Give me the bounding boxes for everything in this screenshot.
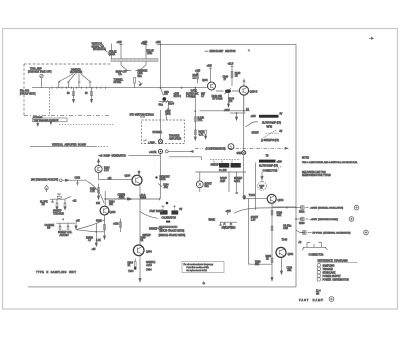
capacitor cluster dashed xyxy=(210,159,240,161)
svg-text:RAMP GENERATOR: RAMP GENERATOR xyxy=(104,155,127,158)
resistor R263 xyxy=(73,88,75,98)
svg-text:SWEEP: SWEEP xyxy=(234,178,243,180)
svg-text:START: START xyxy=(205,183,213,186)
waveform heavy bar xyxy=(259,115,279,118)
resistor col x120 xyxy=(119,219,121,233)
svg-text:+12.5: +12.5 xyxy=(146,265,153,267)
wire mid hline xyxy=(195,171,246,173)
svg-text:CALIBRATOR: CALIBRATOR xyxy=(162,216,177,219)
wire lower bus xyxy=(105,198,160,200)
svg-text:R184: R184 xyxy=(104,168,110,170)
wire pointer xyxy=(105,50,111,56)
svg-text:TRIGGER: TRIGGER xyxy=(169,136,180,138)
ground arrow xyxy=(103,236,105,239)
wire col 229 xyxy=(228,172,230,192)
wire q243 col xyxy=(104,191,106,206)
svg-text:1M: 1M xyxy=(42,204,45,206)
svg-text:DIODE: DIODE xyxy=(114,81,122,84)
svg-text:VERTICAL AMPLIFIER BOARD: VERTICAL AMPLIFIER BOARD xyxy=(52,144,86,147)
svg-text:(+): (+) xyxy=(246,109,249,111)
svg-text:[MULTI–TRACE UNITS]: [MULTI–TRACE UNITS] xyxy=(160,229,185,232)
svg-text:(COMPENSATION): (COMPENSATION) xyxy=(206,147,226,150)
svg-text:SWEEP LEN: SWEEP LEN xyxy=(222,226,236,229)
svg-text:VERTICAL: VERTICAL xyxy=(92,43,104,46)
svg-text:SIGNAL VIA: SIGNAL VIA xyxy=(92,45,105,48)
svg-text:+GATE [NORMAL OSCILLATOR]: +GATE [NORMAL OSCILLATOR] xyxy=(310,207,343,210)
svg-text:WAVE: WAVE xyxy=(209,219,216,222)
section divider vert amp board xyxy=(30,145,97,147)
svg-text:12.4: 12.4 xyxy=(316,291,321,293)
svg-text:TRIGGER: TRIGGER xyxy=(323,269,334,271)
svg-text:Q344: Q344 xyxy=(278,199,285,202)
svg-text:T304: T304 xyxy=(128,270,134,273)
svg-text:LINE: LINE xyxy=(138,73,144,75)
wire diode drop xyxy=(228,93,230,104)
svg-text:50Ω: 50Ω xyxy=(205,185,210,188)
svg-text:SNAP OFF: SNAP OFF xyxy=(116,71,128,74)
resistor R140 xyxy=(231,72,233,78)
wire col 236.7 xyxy=(236,172,238,194)
resistor R265 xyxy=(91,88,93,98)
delay line bar xyxy=(111,59,158,62)
legend row 1 xyxy=(317,264,320,267)
svg-text:– – ERROR AMP SECTION: – – ERROR AMP SECTION xyxy=(205,50,236,53)
svg-text:R144: R144 xyxy=(229,99,235,101)
svg-text:4.7K: 4.7K xyxy=(199,134,204,136)
switch dashed box xyxy=(142,120,185,144)
svg-text:177L: 177L xyxy=(198,120,204,122)
legend row 3 xyxy=(317,271,320,274)
svg-text:Q243: Q243 xyxy=(110,211,117,214)
wire r265a column xyxy=(95,224,97,244)
svg-text:[FROM VERT]: [FROM VERT] xyxy=(20,93,36,96)
resistor R182 xyxy=(98,184,100,196)
wire q243 down xyxy=(104,215,106,236)
node memory gate dot xyxy=(155,176,157,178)
resistor marks xyxy=(134,262,136,267)
svg-text:NORMAL: NORMAL xyxy=(153,131,164,134)
wire divider taps xyxy=(59,74,90,82)
svg-text:FAST RAMP: FAST RAMP xyxy=(299,298,324,302)
connector ring xyxy=(165,150,168,153)
svg-text:INTERFACE: INTERFACE xyxy=(93,48,106,51)
svg-text:C349: C349 xyxy=(140,237,146,239)
svg-text:0V: 0V xyxy=(179,209,182,211)
resistor R118 xyxy=(134,78,136,84)
svg-text:+GATE: +GATE xyxy=(149,151,157,154)
output row 2 xyxy=(296,218,301,220)
svg-text:PULSE: PULSE xyxy=(109,52,117,54)
svg-text:C140: C140 xyxy=(223,77,229,79)
ground arrow xyxy=(90,98,92,103)
wire bottom border xyxy=(28,286,296,288)
svg-text:NOTE:: NOTE: xyxy=(302,158,309,160)
diode D140 dark xyxy=(225,89,231,93)
svg-text:Q154 B: Q154 B xyxy=(250,92,258,94)
svg-text:TRIG. AMP: TRIG. AMP xyxy=(30,68,42,71)
wire schematic top border xyxy=(157,43,297,45)
wire diode drop xyxy=(167,102,169,111)
svg-text:LAMP: LAMP xyxy=(149,142,156,145)
svg-text:TYPE N SAMPLING UNIT: TYPE N SAMPLING UNIT xyxy=(36,270,77,274)
label compensation divider xyxy=(195,147,203,149)
svg-text:–GATE [TRIGGER BOARD]: –GATE [TRIGGER BOARD] xyxy=(310,218,338,221)
svg-text:AMPLIFIER: AMPLIFIER xyxy=(169,137,181,140)
wire c234 line xyxy=(105,198,127,200)
wire lower link xyxy=(230,112,246,114)
ground arrow xyxy=(72,98,74,103)
ground arrow xyxy=(139,279,141,282)
wire diode hline xyxy=(159,100,173,103)
node dot xyxy=(166,202,169,205)
wire main col q184 down xyxy=(139,185,141,245)
svg-text:R234: R234 xyxy=(109,202,115,204)
svg-text:R140: R140 xyxy=(235,73,241,75)
svg-text:R265A: R265A xyxy=(86,237,93,240)
svg-text:START: START xyxy=(252,132,260,135)
svg-text:1K: 1K xyxy=(266,259,269,261)
wire right border xyxy=(295,44,297,287)
svg-text:R363: R363 xyxy=(266,256,272,258)
svg-text:[MR]: [MR] xyxy=(166,114,171,116)
svg-text:Q364: Q364 xyxy=(288,254,294,256)
wire box feed xyxy=(161,110,167,139)
connector sketch xyxy=(303,246,326,248)
svg-text:R170 2: R170 2 xyxy=(174,96,182,98)
wire q304 down xyxy=(139,256,141,281)
capacitor black block B xyxy=(231,163,241,168)
curve label pointer xyxy=(140,211,158,218)
cal plus marks xyxy=(162,205,165,210)
svg-text:SAMPLE: SAMPLE xyxy=(146,261,156,264)
svg-text:C262: C262 xyxy=(75,178,81,180)
hatched bar sweep cal xyxy=(159,226,178,228)
svg-text:FAST RAMP: FAST RAMP xyxy=(150,210,164,213)
svg-text:1.28: 1.28 xyxy=(251,220,256,222)
svg-text:OR 50Ω: OR 50Ω xyxy=(283,225,292,228)
wire sweep feed curve xyxy=(234,208,296,214)
legend row 5 xyxy=(317,278,320,281)
svg-text:COARSE: COARSE xyxy=(45,224,55,227)
note box xyxy=(182,262,224,273)
svg-text:.001: .001 xyxy=(120,197,125,199)
wire dashed region bottom xyxy=(24,114,111,116)
ground arrow xyxy=(97,196,99,199)
transistor Q173 xyxy=(95,165,102,172)
svg-text:C234: C234 xyxy=(120,195,126,197)
svg-text:TD45: TD45 xyxy=(282,240,288,242)
svg-text:+12.5: +12.5 xyxy=(228,64,235,66)
ground arrow xyxy=(227,104,229,107)
svg-text:+12R: +12R xyxy=(113,224,119,226)
svg-text:1K: 1K xyxy=(141,240,144,242)
svg-text:R152: R152 xyxy=(199,132,205,134)
svg-text:HF SYNC [EXTERNAL CALIBRATOR]: HF SYNC [EXTERNAL CALIBRATOR] xyxy=(313,232,351,235)
svg-text:DELAY: DELAY xyxy=(147,50,155,53)
wire q344 col down xyxy=(271,203,273,279)
svg-text:MEMORY: MEMORY xyxy=(160,177,171,179)
svg-text:50Ω: 50Ω xyxy=(138,75,143,78)
curve trigger input xyxy=(87,181,104,203)
cal block A xyxy=(160,210,168,214)
svg-text:SEE PARTS LIST FOR: SEE PARTS LIST FOR xyxy=(302,171,326,174)
wire dashed drop to switch details xyxy=(49,88,51,116)
svg-text:WFM: WFM xyxy=(267,127,273,129)
transistor Q154 xyxy=(239,86,248,95)
bus hatch ticks xyxy=(52,87,106,89)
svg-text:10K: 10K xyxy=(109,204,114,206)
wire converge V xyxy=(121,61,146,70)
junction T340 xyxy=(243,196,246,198)
trimmer R262 xyxy=(40,74,43,77)
wire q364 down xyxy=(281,257,283,271)
svg-text:+B75: +B75 xyxy=(174,94,180,96)
svg-text:C364: C364 xyxy=(287,268,293,270)
transistor B201 xyxy=(196,181,203,188)
wire q344 border link xyxy=(273,206,297,208)
trimmer C349 xyxy=(258,182,267,191)
svg-text:0V: 0V xyxy=(280,131,283,133)
sweep cal circuit xyxy=(56,222,75,224)
svg-text:Q134: Q134 xyxy=(202,80,208,82)
svg-text:SLOW RAMP (FA): SLOW RAMP (FA) xyxy=(262,122,281,125)
wire base link xyxy=(245,197,268,199)
junction xyxy=(160,87,162,89)
wire hline 264 xyxy=(249,263,272,265)
svg-text:R339: R339 xyxy=(277,213,283,215)
svg-text:4.7K: 4.7K xyxy=(96,240,101,242)
svg-text:C184: C184 xyxy=(163,185,169,187)
wire main signal bus xyxy=(32,87,207,89)
svg-text:POWER SUPPLY: POWER SUPPLY xyxy=(323,276,342,278)
svg-text:1M: 1M xyxy=(47,228,50,230)
curve sweep lower xyxy=(76,220,105,230)
svg-text:R369: R369 xyxy=(255,262,261,264)
cal block B xyxy=(171,210,178,214)
svg-text:SAMPLING: SAMPLING xyxy=(323,264,335,267)
wire dashed region top xyxy=(24,63,110,65)
wire compensation lead xyxy=(168,150,191,152)
svg-text:(-) SWEEPS (FA): (-) SWEEPS (FA) xyxy=(261,139,279,142)
svg-text:+100: +100 xyxy=(251,116,257,118)
wire gate drop xyxy=(159,154,161,199)
svg-text:[SINGLE–TRACE UNITS]: [SINGLE–TRACE UNITS] xyxy=(159,234,186,237)
svg-text:R164: R164 xyxy=(169,103,175,105)
svg-text:10K: 10K xyxy=(96,203,101,205)
wire start line xyxy=(248,199,250,264)
svg-text:50Ω: 50Ω xyxy=(159,103,164,106)
wire emitter down xyxy=(99,173,132,180)
svg-text:SLOPE: SLOPE xyxy=(40,202,48,204)
junction dots on border xyxy=(295,207,297,209)
diamond marker xyxy=(45,186,49,191)
svg-text:C304: C304 xyxy=(146,270,152,272)
top right mark xyxy=(369,37,374,39)
svg-text:THE ⊕ LINE PICKUP, AND A SWITC: THE ⊕ LINE PICKUP, AND A SWITCH ∆ ON EAC… xyxy=(302,161,358,164)
svg-text:SN: SN xyxy=(316,294,320,296)
arrow into q184 xyxy=(138,170,140,175)
second black bar xyxy=(259,160,276,163)
svg-text:R383: R383 xyxy=(299,223,305,225)
ground arrow xyxy=(235,113,237,120)
transistor Q304 xyxy=(133,245,144,256)
wire col 255 xyxy=(255,163,257,210)
svg-text:47R: 47R xyxy=(164,93,168,95)
ground arrow xyxy=(194,137,196,140)
svg-text:R381: R381 xyxy=(299,212,305,214)
svg-text:N27: N27 xyxy=(201,94,206,96)
svg-text:SWEEP: SWEEP xyxy=(211,165,220,167)
wire emitter bottom line xyxy=(200,110,251,112)
svg-text:THE TRIGGER PICKOFF: THE TRIGGER PICKOFF xyxy=(34,120,60,122)
svg-text:SEMICONDUCTOR TYPES: SEMICONDUCTOR TYPES xyxy=(302,175,331,177)
svg-text:4.3K: 4.3K xyxy=(277,215,282,217)
waveform dashed ramp xyxy=(264,130,278,138)
legend row 4 xyxy=(317,274,320,277)
svg-text:+100: +100 xyxy=(277,162,283,164)
balloon marker xyxy=(228,144,234,150)
snap off diode marks xyxy=(127,70,140,72)
svg-text:VOLTAGE: VOLTAGE xyxy=(33,116,43,119)
sampling diode D xyxy=(161,88,164,96)
arrow up feed xyxy=(97,159,99,165)
wire main center col xyxy=(243,96,245,196)
transistor Q344 xyxy=(267,194,276,203)
output row 1 xyxy=(296,207,301,209)
svg-text:GND: GND xyxy=(237,153,242,155)
comps below A xyxy=(57,199,65,204)
wire lower lead xyxy=(169,157,201,160)
svg-text:+125: +125 xyxy=(207,66,213,68)
svg-text:GATE: GATE xyxy=(234,180,241,183)
svg-text:0V: 0V xyxy=(280,114,283,116)
svg-text:R182: R182 xyxy=(90,189,96,191)
resistor column R177 xyxy=(194,89,196,140)
wire q154 drop xyxy=(243,95,245,113)
svg-text:Q184: Q184 xyxy=(125,176,131,178)
wire brace curve xyxy=(246,122,259,127)
svg-text:SLOW RAMP (FA): SLOW RAMP (FA) xyxy=(259,165,278,168)
label ramp generator divider xyxy=(99,154,103,156)
svg-text:START: START xyxy=(251,216,259,219)
svg-text:For all semiconductor frequenc: For all semiconductor frequency xyxy=(184,263,215,266)
svg-text:4.3R: 4.3R xyxy=(283,228,288,230)
svg-text:[TRIGGER TAKE OFF]: [TRIGGER TAKE OFF] xyxy=(28,71,52,74)
svg-text:TRIGGER: TRIGGER xyxy=(53,212,64,215)
svg-text:STAIRCASE: STAIRCASE xyxy=(323,271,336,274)
wire tall feed line xyxy=(160,44,162,87)
svg-text:25V [TRIGGER PICKOFF]: 25V [TRIGGER PICKOFF] xyxy=(31,179,58,181)
svg-text:R167: R167 xyxy=(193,75,199,77)
svg-text:Q304: Q304 xyxy=(146,252,152,254)
svg-text:AMP: AMP xyxy=(220,180,226,183)
svg-text:T340: T340 xyxy=(249,193,256,197)
svg-text:.001: .001 xyxy=(164,187,169,189)
svg-text:.001: .001 xyxy=(287,270,292,272)
transistor Q243 xyxy=(100,206,109,215)
legend row 2 xyxy=(317,267,320,270)
svg-text:POWER DISTRIBUTION: POWER DISTRIBUTION xyxy=(323,279,350,281)
svg-text:+125: +125 xyxy=(195,71,201,73)
svg-text:CONNECTOR: CONNECTOR xyxy=(309,255,324,257)
svg-text:NETWORK: NETWORK xyxy=(70,71,83,74)
svg-text:T.D.: T.D. xyxy=(118,74,122,76)
svg-text:2.7K: 2.7K xyxy=(104,170,109,172)
capacitor taps on bus xyxy=(58,82,92,88)
svg-text:Parts lists section of this: Parts lists section of this xyxy=(187,266,209,269)
node x mark xyxy=(248,50,250,52)
svg-text:LINE: LINE xyxy=(147,53,153,55)
svg-text:1K: 1K xyxy=(128,265,131,267)
wire dashed region left xyxy=(23,64,25,116)
lamp B167 xyxy=(158,139,162,143)
svg-text:REFERENCE DIAGRAMS: REFERENCE DIAGRAMS xyxy=(318,260,348,263)
svg-text:CONNECTOR: CONNECTOR xyxy=(263,171,278,173)
svg-text:R.24R: R.24R xyxy=(198,118,205,120)
capacitor black block A xyxy=(219,163,229,168)
wire link from cal circuit xyxy=(76,230,96,232)
svg-text:TD: TD xyxy=(266,156,269,158)
svg-text:+125: +125 xyxy=(226,211,232,213)
sweep trigger circuit xyxy=(50,196,71,199)
svg-text:CHARGE: CHARGE xyxy=(138,70,148,73)
svg-text:+125: +125 xyxy=(117,42,123,44)
svg-text:BY PASS: BY PASS xyxy=(213,98,223,101)
node gate connector xyxy=(158,149,162,153)
svg-text:1K: 1K xyxy=(235,76,238,78)
svg-text:10K: 10K xyxy=(255,264,260,266)
transistor Q364 xyxy=(276,247,286,257)
dark blob xyxy=(166,221,170,223)
svg-text:R304: R304 xyxy=(128,263,134,265)
wire bar feed xyxy=(111,44,113,59)
wire dotted lower xyxy=(59,124,115,126)
svg-text:for replacement of ΩΩ: for replacement of ΩΩ xyxy=(187,269,208,272)
svg-text:4.7K: 4.7K xyxy=(90,191,95,193)
svg-text:ADJUST: ADJUST xyxy=(60,234,70,237)
ground arrow xyxy=(139,81,142,86)
output row 3 xyxy=(296,230,305,233)
svg-text:+12.5: +12.5 xyxy=(140,197,147,199)
